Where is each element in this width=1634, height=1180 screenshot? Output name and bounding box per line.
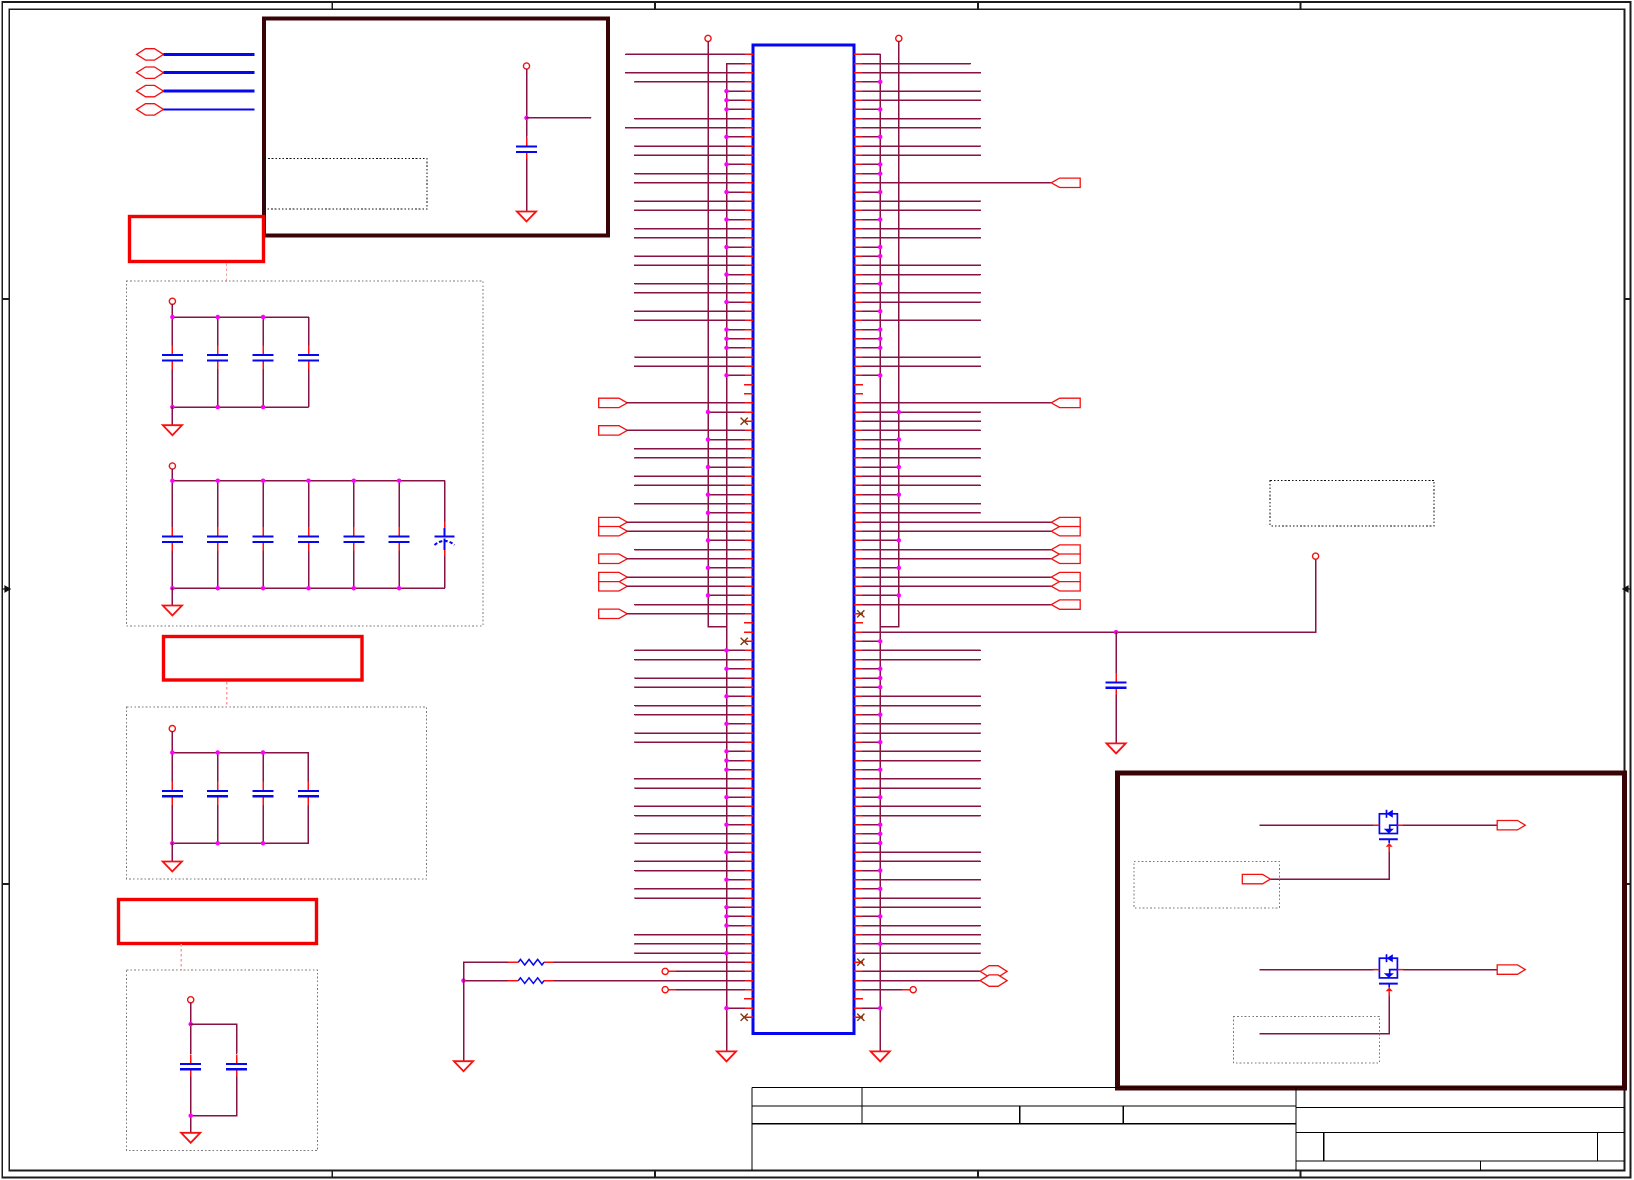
junction bbox=[878, 639, 883, 644]
wire bbox=[626, 53, 745, 55]
net bus vertical right inner bbox=[879, 54, 881, 1051]
wire bbox=[190, 1077, 192, 1133]
junction bbox=[897, 593, 902, 598]
wire bbox=[708, 594, 744, 596]
wire bbox=[217, 753, 219, 782]
junction bbox=[878, 1006, 883, 1011]
junction bbox=[878, 171, 883, 176]
wire bbox=[708, 539, 744, 541]
port bbox=[599, 426, 628, 435]
wire bbox=[635, 81, 744, 83]
wire bbox=[217, 481, 219, 527]
junction bbox=[878, 712, 883, 717]
junction bbox=[397, 586, 402, 591]
wire bbox=[635, 805, 744, 807]
wire bbox=[727, 246, 745, 248]
title block bbox=[752, 1087, 1625, 1170]
wire bbox=[1260, 969, 1373, 971]
ground bbox=[871, 1051, 890, 1061]
junction bbox=[261, 841, 266, 846]
wire bbox=[863, 237, 981, 239]
wire bbox=[627, 558, 744, 560]
junction bbox=[878, 667, 883, 672]
junction bbox=[724, 694, 729, 699]
junction bbox=[878, 868, 883, 873]
wire bbox=[635, 237, 744, 239]
wire bbox=[635, 365, 744, 367]
junction bbox=[706, 538, 711, 543]
wire bbox=[727, 906, 745, 908]
wire bbox=[635, 714, 744, 716]
wire bbox=[863, 356, 981, 358]
wire bbox=[217, 370, 219, 407]
junction bbox=[724, 336, 729, 341]
junction bbox=[878, 281, 883, 286]
wire bbox=[171, 469, 173, 481]
wire bbox=[863, 604, 1052, 606]
wire bbox=[635, 705, 744, 707]
wire bbox=[171, 732, 173, 753]
off-page connector bbox=[137, 67, 164, 78]
junction bbox=[724, 923, 729, 928]
wire bbox=[708, 411, 744, 413]
wire bbox=[863, 466, 899, 468]
no-connect bbox=[857, 1014, 864, 1021]
junction bbox=[724, 767, 729, 772]
junction bbox=[724, 327, 729, 332]
wire bbox=[635, 292, 744, 294]
wire bbox=[727, 1007, 745, 1009]
wire bbox=[727, 163, 745, 165]
wire bbox=[863, 567, 899, 569]
wire bbox=[217, 317, 219, 345]
wire bbox=[863, 915, 880, 917]
port bbox=[1051, 517, 1080, 526]
wire bbox=[863, 329, 880, 331]
wire bbox=[635, 833, 744, 835]
wire bbox=[863, 943, 981, 945]
wire bbox=[171, 551, 173, 588]
wire bbox=[727, 925, 745, 927]
wire bbox=[171, 843, 173, 861]
wire bbox=[626, 72, 745, 74]
wire bbox=[635, 943, 744, 945]
wire bbox=[863, 732, 981, 734]
wire bbox=[708, 512, 744, 514]
wire bbox=[308, 551, 310, 588]
wire bbox=[308, 370, 310, 407]
bus wire bbox=[164, 71, 255, 74]
dashed link bbox=[226, 682, 228, 707]
power pin bbox=[705, 35, 711, 41]
bypass group box 1 bbox=[126, 281, 483, 626]
junction bbox=[724, 373, 729, 378]
junction bbox=[878, 254, 883, 259]
wire bbox=[727, 879, 745, 881]
junction bbox=[724, 89, 729, 94]
wire bbox=[171, 481, 173, 527]
wire bbox=[863, 127, 981, 129]
wire bbox=[863, 411, 981, 413]
connector J1 body bbox=[753, 45, 854, 1034]
junction bbox=[878, 217, 883, 222]
wire end bbox=[910, 987, 916, 993]
junction bbox=[878, 685, 883, 690]
junction bbox=[878, 336, 883, 341]
wire bbox=[863, 503, 981, 505]
wire bbox=[863, 879, 981, 881]
wire bbox=[863, 182, 1052, 184]
junction bbox=[724, 162, 729, 167]
no-connect bbox=[741, 1014, 748, 1021]
bus wire bottom bbox=[172, 587, 444, 589]
wire bbox=[444, 557, 446, 589]
wire bbox=[635, 732, 744, 734]
wire bbox=[217, 551, 219, 588]
junction bbox=[461, 978, 466, 983]
wire bbox=[863, 136, 880, 138]
off-page connector bbox=[980, 966, 1007, 977]
wire bbox=[635, 677, 744, 679]
junction bbox=[724, 272, 729, 277]
wire bbox=[635, 457, 744, 459]
junction bbox=[724, 648, 729, 653]
wire bbox=[526, 160, 528, 212]
wire bbox=[863, 439, 899, 441]
bus wire bottom bbox=[172, 842, 308, 844]
wire bbox=[463, 962, 465, 1061]
wire bbox=[635, 154, 744, 156]
block B1 (top-left hierarchical block) bbox=[264, 19, 608, 236]
wire bbox=[863, 108, 880, 110]
wire bbox=[727, 769, 745, 771]
junction bbox=[216, 478, 221, 483]
junction bbox=[724, 914, 729, 919]
junction bbox=[897, 492, 902, 497]
wire bbox=[635, 145, 744, 147]
no-connect bbox=[741, 638, 748, 645]
junction bbox=[724, 245, 729, 250]
wire bbox=[635, 659, 744, 661]
wire bbox=[444, 481, 446, 522]
wire bbox=[677, 970, 745, 972]
capacitor bbox=[343, 527, 364, 551]
junction bbox=[724, 758, 729, 763]
power pin bbox=[896, 35, 902, 41]
wire bbox=[191, 1077, 237, 1116]
wire bbox=[398, 551, 400, 588]
wire bbox=[627, 521, 744, 523]
wire bbox=[863, 805, 981, 807]
wire bbox=[1260, 997, 1389, 1034]
wire bbox=[262, 481, 264, 527]
wire bbox=[863, 989, 902, 991]
wire bbox=[727, 374, 745, 376]
junction bbox=[706, 566, 711, 571]
junction bbox=[524, 116, 529, 121]
wire bbox=[863, 649, 981, 651]
wire bbox=[863, 906, 981, 908]
wire bbox=[171, 753, 173, 782]
capacitor bbox=[162, 345, 183, 369]
capacitor bbox=[253, 527, 274, 551]
junction bbox=[216, 315, 221, 320]
wire bbox=[863, 888, 880, 890]
port bbox=[1051, 554, 1080, 564]
wire bbox=[1260, 824, 1373, 826]
wire bbox=[727, 219, 745, 221]
wire bbox=[1115, 695, 1117, 743]
transistor Q2 bbox=[1373, 954, 1404, 997]
wire bbox=[863, 769, 880, 771]
wire bbox=[635, 860, 744, 862]
wire bbox=[863, 173, 880, 175]
junction bbox=[706, 492, 711, 497]
wire bbox=[635, 255, 744, 257]
wire bbox=[554, 961, 744, 963]
port bbox=[599, 609, 628, 618]
wire bbox=[635, 118, 744, 120]
bus wire bbox=[164, 108, 255, 110]
wire bbox=[863, 429, 981, 431]
dashed label box bbox=[1134, 861, 1279, 908]
wire bbox=[727, 695, 745, 697]
junction bbox=[188, 1113, 193, 1118]
bus wire top bbox=[172, 316, 308, 318]
ground bbox=[163, 425, 182, 435]
port bbox=[1497, 965, 1525, 974]
wire bbox=[635, 209, 744, 211]
wire bbox=[727, 90, 745, 92]
capacitor bbox=[162, 527, 183, 551]
junction bbox=[878, 80, 883, 85]
capacitor bbox=[298, 781, 319, 805]
port bbox=[1051, 527, 1080, 536]
wire bbox=[863, 53, 880, 55]
junction bbox=[724, 905, 729, 910]
ground bbox=[717, 1051, 736, 1061]
wire bbox=[262, 753, 264, 782]
junction bbox=[878, 135, 883, 140]
wire bbox=[863, 695, 981, 697]
wire bbox=[863, 796, 880, 798]
capacitor bbox=[207, 781, 228, 805]
junction bbox=[215, 841, 220, 846]
power pin bbox=[523, 63, 529, 69]
wire bbox=[627, 402, 744, 404]
wire bbox=[1404, 824, 1498, 826]
resistor bbox=[508, 980, 554, 982]
resistor bbox=[508, 961, 554, 963]
wire bbox=[863, 301, 981, 303]
wire bbox=[863, 559, 1316, 632]
wire bbox=[863, 228, 981, 230]
junction bbox=[306, 478, 311, 483]
wire jog bbox=[880, 626, 899, 628]
wire bbox=[727, 750, 745, 752]
wire bbox=[635, 283, 744, 285]
dashed label box bbox=[265, 159, 428, 210]
wire bbox=[863, 264, 981, 266]
wire bbox=[635, 475, 744, 477]
connector J1 right pins bbox=[854, 54, 863, 1017]
wire bbox=[635, 200, 744, 202]
wire bbox=[863, 457, 981, 459]
wire bbox=[190, 1003, 192, 1054]
wire bbox=[863, 200, 981, 202]
wire bbox=[863, 292, 981, 294]
junction bbox=[878, 309, 883, 314]
junction bbox=[216, 586, 221, 591]
junction bbox=[724, 667, 729, 672]
wire bbox=[863, 778, 981, 780]
wire bbox=[1270, 853, 1389, 880]
wire bbox=[863, 420, 981, 422]
port bbox=[1051, 572, 1080, 581]
wire bbox=[863, 750, 981, 752]
wire bbox=[863, 521, 1052, 523]
junction bbox=[897, 465, 902, 470]
wire bbox=[171, 806, 173, 844]
junction bbox=[170, 750, 175, 755]
wire bbox=[863, 310, 880, 312]
bus wire top bbox=[172, 752, 308, 754]
wire bbox=[262, 806, 264, 844]
wire bbox=[635, 356, 744, 358]
transistor Q1 bbox=[1373, 810, 1404, 853]
wire bbox=[863, 484, 981, 486]
wire bbox=[635, 484, 744, 486]
power pin bbox=[169, 298, 175, 304]
junction bbox=[216, 405, 221, 410]
ground bbox=[517, 212, 536, 222]
wire bbox=[863, 851, 981, 853]
wire bbox=[635, 649, 744, 651]
wire bbox=[863, 952, 981, 954]
wire bbox=[191, 1024, 237, 1053]
no-connect bbox=[857, 959, 864, 966]
wire bbox=[863, 347, 880, 349]
junction bbox=[878, 822, 883, 827]
wire bbox=[727, 301, 745, 303]
junction bbox=[724, 877, 729, 882]
junction bbox=[724, 1006, 729, 1011]
power pin bbox=[169, 726, 175, 732]
wire bbox=[171, 304, 173, 317]
capacitor bbox=[253, 781, 274, 805]
wire bbox=[863, 576, 1052, 578]
wire bbox=[863, 494, 899, 496]
wire end bbox=[662, 968, 668, 974]
wire bbox=[863, 860, 981, 862]
wire bbox=[635, 787, 744, 789]
wire bbox=[635, 815, 744, 817]
wire bbox=[863, 659, 981, 661]
wire bbox=[863, 255, 880, 257]
junction bbox=[170, 405, 175, 410]
junction bbox=[878, 676, 883, 681]
junction bbox=[724, 795, 729, 800]
wire bbox=[627, 613, 744, 615]
port bbox=[1497, 821, 1525, 830]
wire bbox=[353, 551, 355, 588]
junction bbox=[878, 245, 883, 250]
wire bbox=[863, 512, 981, 514]
resistor bbox=[518, 959, 544, 965]
connector J1 left pins bbox=[744, 54, 753, 1017]
wire bbox=[727, 99, 745, 101]
junction bbox=[724, 135, 729, 140]
border center arrow left bbox=[2, 586, 11, 592]
ground bbox=[181, 1133, 200, 1143]
wire bbox=[262, 317, 264, 345]
wire bbox=[635, 264, 744, 266]
ground bbox=[163, 862, 182, 872]
wire bbox=[398, 481, 400, 527]
wire bbox=[863, 585, 1052, 587]
wire bbox=[635, 778, 744, 780]
junction bbox=[724, 749, 729, 754]
wire end bbox=[662, 987, 668, 993]
junction bbox=[878, 740, 883, 745]
border zone ticks left bbox=[2, 298, 10, 300]
wire bbox=[727, 108, 745, 110]
bypass group box 3 bbox=[127, 970, 318, 1150]
wire bbox=[727, 668, 745, 670]
capacitor bbox=[253, 345, 274, 369]
junction bbox=[897, 538, 902, 543]
wire bbox=[863, 558, 1052, 560]
net bus vertical left inner bbox=[726, 64, 728, 1052]
junction bbox=[261, 478, 266, 483]
border zone ticks bottom bbox=[331, 1170, 333, 1177]
wire bbox=[171, 370, 173, 407]
junction bbox=[706, 511, 711, 516]
capacitor bbox=[207, 527, 228, 551]
wire bbox=[863, 686, 880, 688]
wire bbox=[863, 677, 880, 679]
bus wire bbox=[164, 90, 255, 93]
capacitor C3 bbox=[226, 1054, 247, 1078]
junction bbox=[170, 315, 175, 320]
wire bbox=[863, 338, 880, 340]
junction bbox=[724, 346, 729, 351]
wire bbox=[262, 551, 264, 588]
wire bbox=[635, 173, 744, 175]
wire bbox=[727, 760, 745, 762]
wire bbox=[863, 549, 1052, 551]
wire bbox=[863, 63, 970, 65]
wire bbox=[626, 127, 745, 129]
wire bbox=[1404, 969, 1498, 971]
wire bbox=[863, 723, 981, 725]
block P2 (red) bbox=[130, 217, 264, 262]
wire bbox=[863, 842, 880, 844]
wire bbox=[727, 796, 745, 798]
wire bbox=[635, 319, 744, 321]
port bbox=[1242, 874, 1270, 883]
wire bbox=[863, 833, 880, 835]
junction bbox=[170, 586, 175, 591]
port bbox=[599, 554, 628, 564]
port bbox=[1051, 178, 1080, 187]
off-page connector bbox=[980, 975, 1007, 986]
wire bbox=[863, 448, 981, 450]
junction bbox=[878, 795, 883, 800]
junction bbox=[706, 410, 711, 415]
wire bbox=[171, 317, 173, 345]
wire bbox=[863, 530, 1052, 532]
